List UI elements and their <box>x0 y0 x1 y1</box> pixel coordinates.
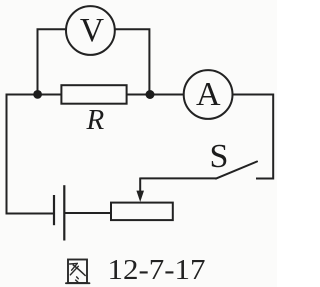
svg-text:A: A <box>196 76 221 113</box>
resistor R body <box>61 85 126 104</box>
wire: left rail vertical <box>6 94 8 215</box>
svg-text:12-7-17: 12-7-17 <box>108 255 206 286</box>
wire: voltmeter branch left (junction up and right to voltmeter) <box>38 29 66 94</box>
svg-text:R: R <box>85 104 104 136</box>
rheostat body (slide resistor box) <box>111 203 173 221</box>
wire: slider arrow stem <box>139 178 141 192</box>
wire: top main bus left segment (left rail corner to resistor) <box>7 94 62 96</box>
rheostat slider arrowhead <box>136 191 144 202</box>
wire: bottom from left rail to battery negative plate <box>7 213 54 215</box>
caption: hanzi TU (figure) drawn as strokes <box>66 260 89 284</box>
wire: ammeter to right rail, down, switch fixed contact hook <box>233 95 273 179</box>
battery cell: long positive plate <box>63 185 65 240</box>
node: right junction dot <box>146 90 155 99</box>
svg-text:S: S <box>210 138 229 175</box>
wire: resistor to ammeter <box>127 94 184 96</box>
wire: rheostat slider to switch pivot <box>140 177 216 179</box>
ammeter A circle <box>184 70 233 119</box>
wire: battery to rheostat <box>65 212 111 214</box>
battery cell: short negative plate <box>53 195 55 225</box>
voltmeter V circle <box>66 6 115 55</box>
wire: voltmeter branch right (voltmeter right, down to junction) <box>116 29 150 94</box>
switch S blade (open) <box>216 162 257 179</box>
node: left junction dot <box>33 90 42 99</box>
svg-text:V: V <box>80 12 104 49</box>
